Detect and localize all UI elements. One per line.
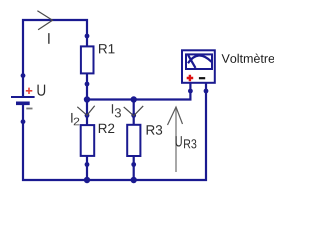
current arrow I2 head [77,106,94,116]
junction dot node R3 tap [131,96,137,102]
wire: node wire to voltmeter + terminal [87,83,190,100]
voltmeter U1 outer box [182,50,215,83]
voltmeter + sign (red) [187,75,194,82]
label I [48,33,49,44]
voltage arrow U_R3 tail [175,108,177,173]
label Voltmetre [222,54,275,63]
R3 top pin dot [131,113,136,118]
wire: R3 bottom to rail [133,156,135,180]
wire: battery - down, bottom rail, up right side to voltmeter - terminal [23,83,206,180]
voltmeter scale arc [188,55,212,63]
wire: R1 bottom to node [86,74,88,100]
resistor R1 [81,46,94,73]
junction dot node left (R1/R2/node wire) [84,96,90,102]
wire: left loop from battery + up, across top, down to R1 [23,20,87,97]
junction dot rail R2 [84,177,90,183]
label I3 [112,104,121,117]
junction dot rail R3 [131,177,137,183]
label R2 [99,124,114,133]
battery - sign (gray) [26,108,32,110]
voltmeter - sign [199,77,205,79]
R2 bottom pin dot [85,162,90,167]
R1 bottom pin dot [85,82,90,87]
current arrow I on top wire [37,11,52,30]
wire: node down to R2 top [86,100,88,126]
R1 top pin dot [85,34,90,39]
current arrow I3 head [124,106,144,116]
battery U: positive plate [11,96,35,98]
voltmeter needle [188,55,195,68]
wire: node down to R3 top [133,100,135,126]
voltmeter inner display [186,54,212,69]
battery U: negative plate [16,102,30,106]
label I2 [71,113,79,125]
voltmeter - pin dot [204,89,209,94]
label U_R3 [176,136,197,148]
wire: R2 bottom to rail [86,156,88,180]
battery label U [37,85,45,96]
battery + sign (red) [26,88,33,94]
voltmeter + pin dot [188,89,193,94]
label R3 [147,125,163,135]
R3 bottom pin dot [131,162,136,167]
label R1 [99,44,114,53]
voltage arrow U_R3 head [168,107,183,125]
resistor R2 [81,125,95,156]
R2 top pin dot [85,113,90,118]
resistor R3 [127,125,140,156]
battery bottom pin dot [21,119,26,124]
battery top pin dot [21,73,26,78]
